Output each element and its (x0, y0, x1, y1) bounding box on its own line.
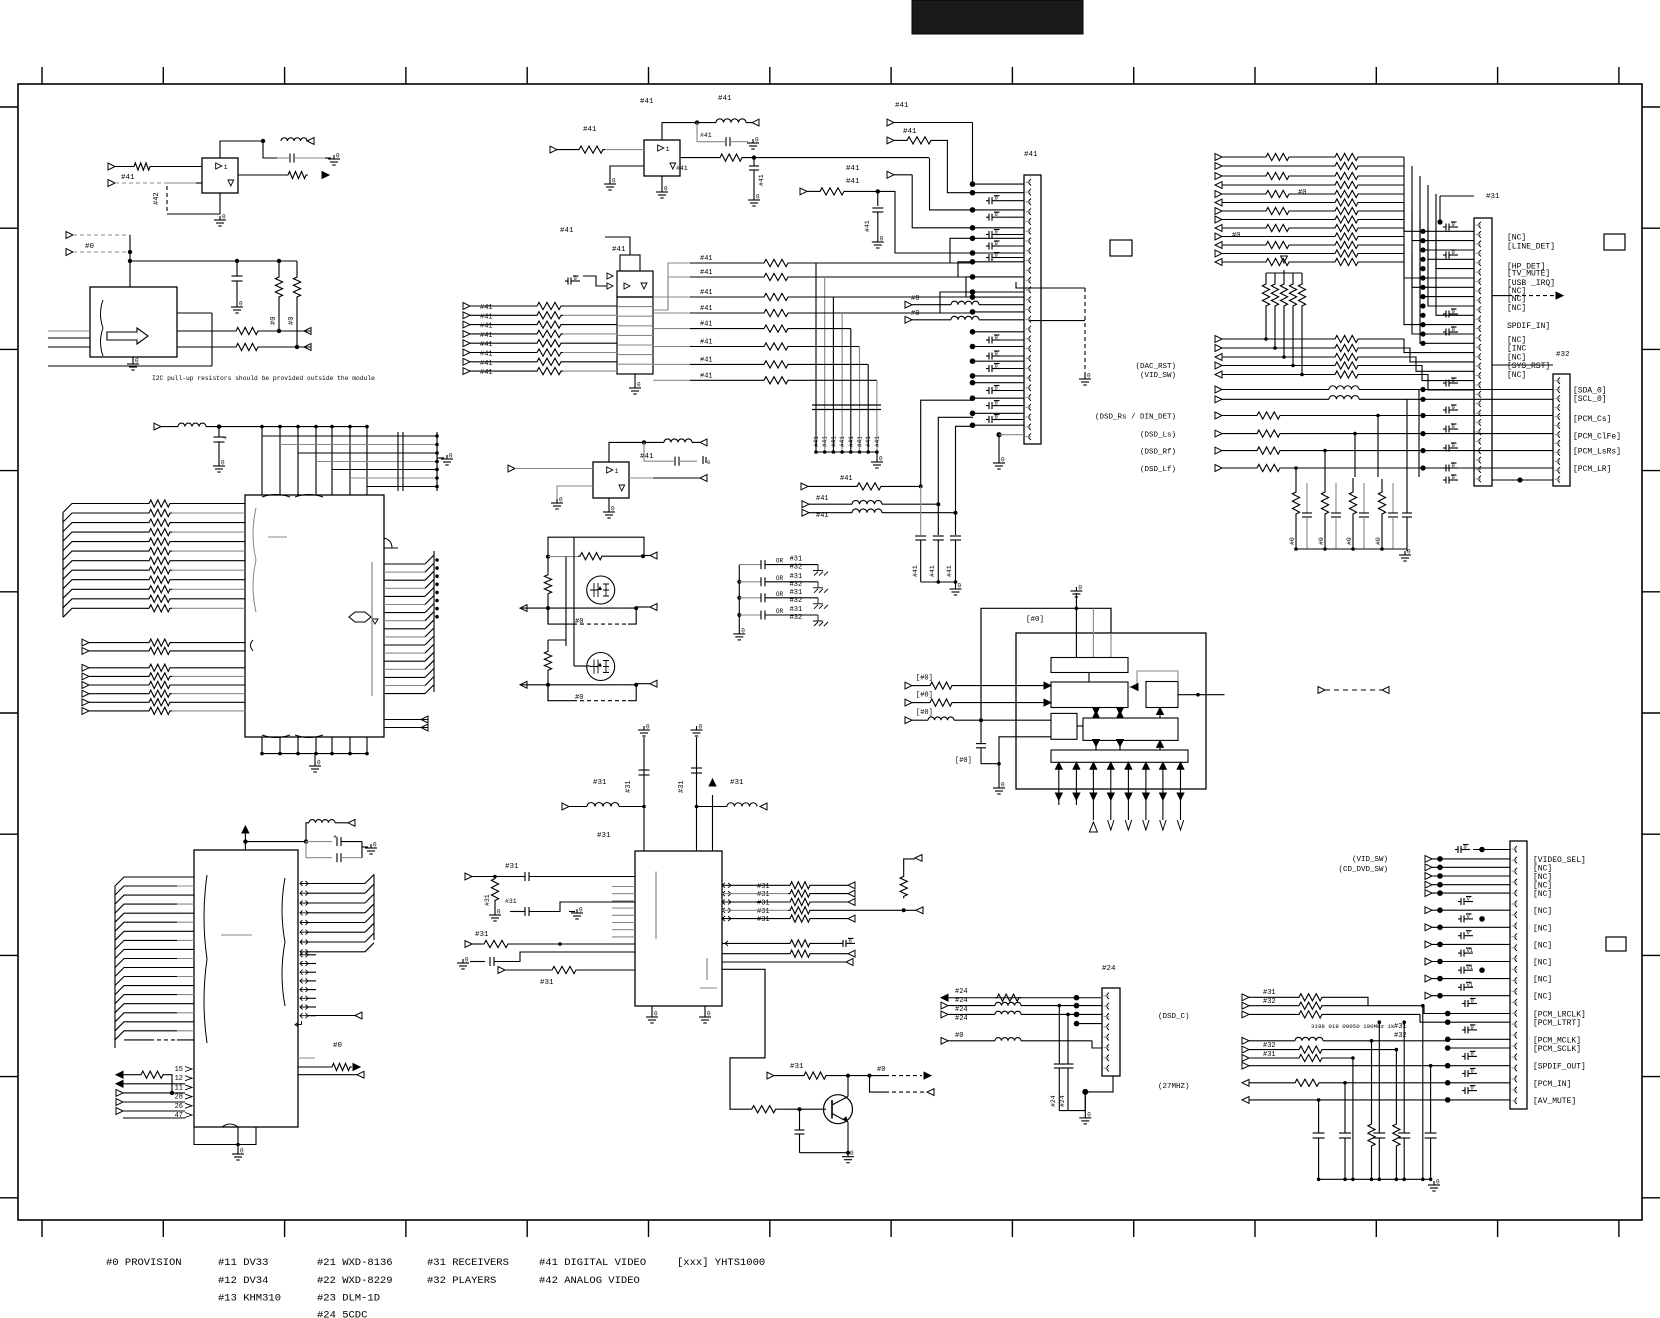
svg-text:0: 0 (1471, 1085, 1474, 1092)
svg-text:#31: #31 (1486, 193, 1500, 201)
wire (470, 305, 535, 307)
cap to rail V1 (1458, 969, 1461, 971)
capacitor (1306, 483, 1308, 513)
wire (1222, 253, 1264, 255)
tick mark top (1618, 67, 1620, 84)
decoupling caps on risers (920, 486, 922, 535)
svg-text:#41: #41 (903, 128, 917, 136)
filter capacitor (1373, 1132, 1385, 1134)
svg-text:#31: #31 (790, 556, 803, 564)
svg-text:#41: #41 (700, 289, 713, 297)
svg-text:#41: #41 (848, 436, 855, 447)
wire (912, 685, 928, 687)
IC U2 (90, 287, 177, 357)
resistor (1264, 172, 1291, 179)
svg-text:[INC: [INC (1507, 345, 1526, 354)
ground (738, 630, 740, 634)
tick mark bottom (890, 1220, 892, 1237)
svg-text:#0: #0 (1232, 232, 1240, 240)
resistor (147, 500, 172, 507)
row plain (1242, 1062, 1249, 1069)
svg-text:0: 0 (995, 229, 998, 236)
resistor (535, 340, 563, 347)
wire (1360, 253, 1404, 255)
svg-text:0: 0 (497, 909, 501, 916)
svg-text:#0: #0 (955, 1032, 963, 1040)
output wire (384, 579, 425, 581)
ground small (752, 139, 754, 143)
wire to IC (177, 948, 194, 950)
bus ribbon segment (425, 652, 434, 661)
wire to IC (172, 560, 245, 562)
tick mark bottom (1011, 1220, 1013, 1237)
input arrow (1425, 992, 1432, 999)
ground (1084, 375, 1086, 379)
cap to ground (1443, 428, 1446, 430)
wire (940, 292, 973, 313)
resistor (1264, 207, 1291, 214)
wire (1432, 858, 1510, 860)
wire (1222, 398, 1329, 400)
wire (1448, 1021, 1510, 1023)
input arrow (1215, 362, 1222, 369)
svg-text:#0: #0 (1375, 537, 1382, 545)
svg-text:[NC]: [NC] (1507, 371, 1526, 380)
wire (1448, 1013, 1510, 1015)
ground (462, 959, 464, 963)
cap to ground (986, 419, 989, 421)
resistor (535, 302, 563, 309)
wire (1222, 261, 1264, 263)
op-amp U5 (644, 140, 680, 176)
wire (828, 1075, 870, 1077)
stub gray (298, 1057, 315, 1059)
op-amp U1 (202, 158, 238, 193)
bidir arrow (300, 930, 308, 935)
arrow out (304, 328, 311, 335)
cap to rail V1 (1458, 986, 1461, 988)
wire (315, 737, 317, 754)
bus ribbon segment (365, 894, 374, 903)
resistor (147, 664, 172, 671)
wire to IC (172, 579, 245, 581)
tick mark right (1642, 1197, 1660, 1199)
svg-text:[xxx] YHTS1000: [xxx] YHTS1000 (677, 1257, 765, 1269)
cap to ground (1443, 409, 1446, 411)
bus ribbon segment (425, 604, 434, 613)
wire (722, 901, 788, 903)
svg-text:[PCM_LsRs]: [PCM_LsRs] (1573, 448, 1621, 457)
resistor (1255, 464, 1282, 471)
wire to IC (177, 885, 194, 887)
input arrow (82, 664, 89, 671)
cap to ground (1443, 382, 1446, 384)
svg-text:0: 0 (579, 907, 583, 914)
wire up to connector (938, 417, 973, 504)
wire (1432, 875, 1510, 877)
cap to ground (1443, 479, 1446, 481)
arrows between blocks (1095, 708, 1097, 719)
bus entry wire (63, 608, 147, 617)
svg-text:#41: #41 (480, 323, 493, 331)
bidir arrow stub (300, 1005, 308, 1010)
resistor (1333, 199, 1360, 206)
bus ribbon segment (425, 668, 434, 677)
cap-gnd top (1455, 849, 1458, 851)
svg-text:[NC]: [NC] (1507, 295, 1526, 304)
wire to IC (177, 1003, 194, 1005)
svg-text:#41: #41 (846, 178, 860, 186)
svg-text:#41: #41 (813, 436, 820, 447)
svg-text:#41: #41 (700, 339, 713, 347)
svg-text:(DSD_Rf): (DSD_Rf) (1140, 449, 1176, 457)
wire (1404, 245, 1474, 325)
tick mark top (1011, 67, 1013, 84)
svg-text:47: 47 (175, 1112, 183, 1120)
wire (89, 684, 147, 686)
wire (690, 276, 762, 278)
gnd bus (1319, 1178, 1431, 1180)
input arrow (82, 690, 89, 697)
connector CN3 #32 (1553, 374, 1570, 486)
wire from block (653, 263, 690, 310)
wire (261, 427, 263, 495)
wire to connector (973, 209, 1025, 211)
wire (1412, 166, 1474, 241)
open arrow (1143, 820, 1149, 830)
SDA wire (177, 346, 234, 348)
wire op-amp top (662, 123, 697, 140)
bidir arrow stub (300, 996, 308, 1001)
tick mark right (1642, 348, 1660, 350)
wire (1420, 220, 1474, 297)
input arrow (1215, 465, 1222, 472)
bidir mark (722, 908, 731, 913)
sub-block small (1051, 713, 1077, 739)
resistor (535, 368, 563, 375)
svg-text:(CD_DVD_SW): (CD_DVD_SW) (1338, 866, 1388, 874)
bus ribbon segment (425, 555, 434, 564)
tick mark right (1642, 712, 1660, 714)
wire gate2 (574, 665, 590, 667)
wire (1264, 253, 1333, 255)
bus ribbon segment (365, 904, 374, 913)
cap to ground (986, 405, 989, 407)
wire (89, 701, 147, 703)
wire (1282, 467, 1553, 469)
input arrow (154, 423, 161, 430)
wire op-amp top (220, 141, 263, 158)
input arrow (905, 699, 912, 706)
svg-text:#31: #31 (505, 863, 519, 871)
svg-text:[NC]: [NC] (1507, 304, 1526, 313)
bus entry wire (115, 1022, 177, 1031)
ground under op-amp (608, 498, 610, 508)
input arrow (1215, 345, 1222, 352)
bidir arrow (300, 949, 308, 954)
input arrow (550, 146, 557, 153)
cap plates (812, 404, 881, 406)
svg-text:#41: #41 (700, 305, 713, 313)
svg-text:(DSD_Ls): (DSD_Ls) (1140, 432, 1176, 440)
top wire (981, 608, 1111, 720)
inductor (928, 717, 954, 720)
wire to block (563, 352, 617, 354)
svg-text:#41: #41 (839, 436, 846, 447)
gnd bus (1059, 1092, 1085, 1111)
wire from block (653, 312, 690, 314)
op-amp U6 (593, 462, 629, 498)
resistor (1264, 258, 1291, 265)
wire right (1178, 694, 1225, 696)
bus ribbon edge (114, 886, 116, 1048)
tick mark top (284, 67, 286, 84)
wire from block (653, 363, 690, 365)
ground (218, 462, 220, 466)
wire (1448, 1099, 1510, 1101)
svg-text:#32: #32 (790, 564, 803, 572)
svg-text:11: 11 (175, 1084, 183, 1092)
left bus wire (738, 565, 740, 630)
svg-text:#31: #31 (625, 780, 633, 793)
svg-text:#41: #41 (480, 341, 493, 349)
svg-text:0: 0 (637, 382, 641, 389)
svg-text:[PCM_SCLK]: [PCM_SCLK] (1533, 1045, 1581, 1054)
bidir arrow stub (300, 970, 308, 975)
bus entry wire (63, 599, 147, 608)
wire (790, 276, 973, 278)
svg-text:#31: #31 (757, 891, 770, 899)
wire (1222, 193, 1264, 195)
bus ribbon segment (425, 677, 434, 686)
bus entry wire (115, 895, 177, 904)
output arrow (307, 138, 314, 145)
resistor (147, 519, 172, 526)
capacitor (737, 613, 741, 617)
arrow left (520, 681, 527, 688)
row 4 wire (1077, 1023, 1103, 1025)
svg-text:12: 12 (175, 1075, 183, 1083)
vertical drops with filter parts (1317, 1098, 1321, 1102)
svg-text:V1: V1 (1467, 947, 1474, 954)
resistor (1333, 207, 1360, 214)
svg-text:0: 0 (707, 1011, 711, 1018)
row #31 (1242, 994, 1249, 1001)
wire (89, 710, 147, 712)
arrow (348, 819, 355, 826)
wire (366, 737, 368, 754)
wire (1432, 943, 1510, 945)
cap to ground (1462, 1073, 1465, 1075)
row 3 (1242, 1011, 1249, 1018)
svg-text:#0 PROVISION: #0 PROVISION (106, 1257, 182, 1269)
svg-text:#24: #24 (955, 1006, 968, 1014)
svg-text:#31 RECEIVERS: #31 RECEIVERS (427, 1257, 509, 1269)
return arrow (295, 1021, 302, 1027)
resistor (1333, 172, 1360, 179)
resistor (1333, 233, 1360, 240)
arrow in right (421, 724, 428, 731)
resistor (788, 915, 812, 922)
wire to IC (177, 1021, 194, 1023)
arrow up to right block (1159, 708, 1161, 719)
connector CN1 #41 (1024, 175, 1041, 444)
tick mark bottom (284, 1220, 286, 1237)
bidir arrow (300, 910, 308, 915)
tick mark top (1375, 67, 1377, 84)
resistor (147, 567, 172, 574)
wire (1432, 866, 1510, 868)
wire (1222, 202, 1264, 204)
wire (1360, 175, 1404, 177)
pullup resistor (278, 261, 280, 275)
bus entry wire (115, 877, 177, 886)
input arrow (463, 358, 470, 365)
svg-text:0: 0 (995, 195, 998, 202)
wire (470, 333, 535, 335)
svg-text:+: + (223, 435, 227, 443)
svg-text:0: 0 (995, 363, 998, 370)
input arrow (905, 717, 912, 724)
bidir arrow (300, 940, 308, 945)
input arrow (1215, 163, 1222, 170)
input arrow (1215, 216, 1222, 223)
wire from block (653, 296, 690, 298)
resistor (1333, 181, 1360, 188)
wire to connector (973, 252, 1025, 254)
wire to IC (172, 598, 245, 600)
svg-text:(DSD_C): (DSD_C) (1158, 1013, 1190, 1021)
wire to IC (177, 958, 194, 960)
resistor (718, 154, 744, 161)
resistor (1264, 153, 1291, 160)
cap to ground (986, 234, 989, 236)
wire (1420, 176, 1474, 250)
svg-text:OR: OR (776, 575, 784, 582)
wire from block (653, 277, 690, 310)
svg-text:0: 0 (1452, 308, 1455, 315)
svg-text:#41: #41 (480, 304, 493, 312)
svg-text:[NC]: [NC] (1533, 924, 1552, 933)
wire (308, 951, 365, 953)
wire to connector (973, 291, 1025, 293)
wire (308, 941, 365, 943)
bus entry wire (63, 580, 147, 589)
wire (812, 893, 848, 895)
wire (722, 893, 788, 895)
resistor (1255, 447, 1282, 454)
svg-text:#41: #41 (121, 174, 135, 182)
bus ribbon (62, 513, 64, 618)
svg-text:0: 0 (756, 194, 760, 201)
wire (790, 346, 860, 348)
bus entry wire (115, 940, 177, 949)
inductor row to connector (802, 501, 809, 508)
resistor (1333, 371, 1360, 378)
svg-text:#13 KHM310: #13 KHM310 (218, 1293, 281, 1305)
svg-text:(27MHZ): (27MHZ) (1158, 1083, 1190, 1091)
svg-text:(VID_SW): (VID_SW) (1140, 372, 1176, 380)
resistor (147, 529, 172, 536)
wire (1222, 365, 1333, 367)
resistor (1333, 241, 1360, 248)
svg-text:#32: #32 (1263, 1042, 1276, 1050)
cap to ground (1443, 467, 1446, 469)
resistor (1333, 344, 1360, 351)
svg-text:#41: #41 (874, 436, 881, 447)
wire (690, 296, 762, 298)
output wire (384, 628, 425, 630)
ctrl block (617, 271, 653, 297)
cap to ground (1462, 1090, 1465, 1092)
wire (1222, 338, 1333, 340)
resistor (762, 273, 790, 280)
vertical bus wire (824, 277, 826, 452)
ground (237, 1150, 239, 1154)
wire (297, 427, 299, 495)
inverting input wire (557, 486, 593, 499)
bottom bus (1296, 548, 1407, 550)
branch verticals (1058, 1006, 1060, 1064)
bus arrow (1127, 762, 1129, 820)
wire (1432, 909, 1510, 911)
wire (1360, 261, 1404, 263)
resistor (1333, 353, 1360, 360)
svg-text:0: 0 (755, 137, 759, 144)
svg-text:#31: #31 (790, 573, 803, 581)
wire (1264, 184, 1333, 186)
bus entry wire (63, 504, 147, 513)
cap to ground (1443, 254, 1446, 256)
wire (308, 883, 365, 885)
svg-text:0: 0 (1452, 404, 1455, 411)
resistor (147, 690, 172, 697)
bus ribbon segment (365, 923, 374, 932)
junction dots (1074, 995, 1080, 1001)
wire (332, 469, 437, 471)
wire (1448, 1038, 1510, 1040)
wire (349, 737, 351, 754)
ground (362, 846, 368, 848)
resistor (115, 166, 132, 168)
wire to connector (973, 397, 1025, 399)
wire (1360, 193, 1404, 195)
verticals from DSD rows (1377, 416, 1379, 478)
wire vertical (1395, 1050, 1397, 1122)
wire (1428, 228, 1474, 306)
svg-text:0: 0 (995, 252, 998, 259)
resistor (557, 149, 577, 151)
tick mark bottom (1375, 1220, 1377, 1237)
wire to IC (177, 994, 194, 996)
wire to connector (973, 183, 1025, 185)
svg-text:0: 0 (1452, 221, 1455, 228)
wire to connector (973, 192, 1025, 194)
svg-text:0: 0 (559, 497, 563, 504)
input arrow (1215, 191, 1222, 198)
pin stub arrows (177, 312, 212, 314)
wire to IC (177, 976, 194, 978)
dash mark (221, 934, 252, 936)
input arrow (1215, 259, 1222, 266)
bottom wire (800, 1152, 849, 1154)
wire (1222, 415, 1255, 417)
wire dashed (115, 182, 167, 184)
left arrow row (1242, 1097, 1249, 1104)
output wire (384, 595, 425, 597)
wire to connector (973, 237, 1025, 239)
svg-text:#41: #41 (480, 360, 493, 368)
